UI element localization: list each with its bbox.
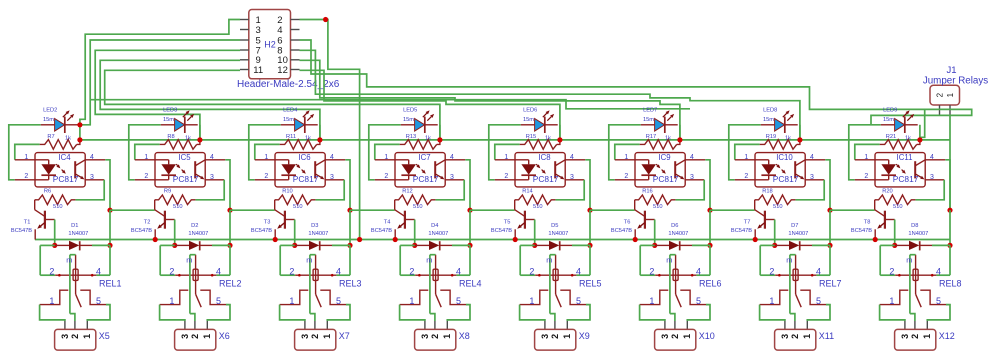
svg-text:1: 1 — [682, 334, 692, 339]
relay contact REL2 switch — [160, 290, 230, 321]
svg-text:R16: R16 — [642, 188, 652, 194]
op-amp IC10 PC817 optocoupler — [735, 153, 826, 187]
svg-text:PC817: PC817 — [173, 174, 199, 184]
resistor R21 1k — [855, 144, 880, 159]
svg-text:3: 3 — [690, 174, 694, 181]
svg-text:1: 1 — [264, 154, 268, 161]
svg-text:2: 2 — [529, 266, 534, 276]
svg-text:510: 510 — [173, 204, 183, 210]
svg-text:IC4: IC4 — [58, 153, 71, 162]
diode D3 1N4007 — [295, 244, 309, 246]
resistor R12 510 — [395, 195, 436, 205]
LED LED6 — [521, 124, 535, 126]
svg-text:5: 5 — [216, 296, 221, 306]
diode D5 1N4007 — [535, 244, 549, 246]
svg-text:4: 4 — [90, 154, 94, 161]
svg-text:2: 2 — [649, 266, 654, 276]
wire IC10 pin 3 to resistor R18 — [795, 180, 824, 200]
svg-text:T5: T5 — [504, 219, 511, 225]
svg-text:IC7: IC7 — [418, 153, 430, 162]
svg-text:REL7: REL7 — [819, 279, 842, 289]
svg-text:4: 4 — [930, 154, 934, 161]
LED LED5 — [401, 124, 415, 126]
svg-text:1k: 1k — [665, 136, 671, 142]
wire H2 pin 1 to LED2 node — [80, 20, 240, 125]
diode D6 1N4007 — [655, 244, 669, 246]
svg-text:m: m — [546, 255, 552, 264]
svg-text:m: m — [306, 255, 312, 264]
wire H2 pin 2 to ground bus — [300, 20, 360, 240]
wire IC8 pin 3 to resistor R14 — [555, 180, 584, 200]
svg-text:PC817: PC817 — [893, 174, 919, 184]
svg-text:3: 3 — [420, 334, 430, 339]
svg-text:2: 2 — [889, 266, 894, 276]
svg-text:1k: 1k — [65, 136, 71, 142]
svg-text:1N4007: 1N4007 — [788, 231, 808, 237]
junction dot T8 emitter at ground bus — [873, 237, 878, 242]
svg-text:T1: T1 — [24, 219, 31, 225]
relay coil REL2 — [160, 245, 241, 313]
relay coil REL4 — [400, 245, 481, 313]
svg-text:REL3: REL3 — [339, 279, 362, 289]
svg-text:REL5: REL5 — [579, 279, 602, 289]
wire T4 collector to diode node — [414, 220, 416, 246]
svg-text:3: 3 — [256, 25, 261, 36]
svg-text:BC547B: BC547B — [11, 228, 32, 234]
svg-text:4: 4 — [576, 266, 581, 276]
op-amp IC8 PC817 optocoupler — [495, 153, 586, 187]
svg-text:4: 4 — [96, 266, 101, 276]
svg-text:R8: R8 — [167, 134, 174, 140]
svg-text:1: 1 — [384, 154, 388, 161]
resistor R11 1k — [255, 144, 280, 159]
svg-text:3: 3 — [210, 174, 214, 181]
svg-text:510: 510 — [533, 204, 543, 210]
transistor T3 BC547B — [251, 200, 295, 240]
svg-text:1k: 1k — [785, 136, 791, 142]
svg-text:IC8: IC8 — [538, 153, 550, 162]
svg-text:2: 2 — [744, 173, 748, 180]
wire LED7 anode to IC9 pin 2 — [609, 125, 641, 180]
op-amp IC6 PC817 optocoupler — [255, 153, 345, 187]
wire node IC9 supply to next base hook — [710, 209, 755, 211]
svg-text:1: 1 — [649, 296, 654, 306]
junction dot T6 emitter at ground bus — [633, 237, 638, 242]
svg-text:LED6: LED6 — [523, 108, 537, 114]
svg-text:1k: 1k — [425, 136, 431, 142]
wire LED3 anode to IC5 pin 2 — [129, 125, 161, 180]
wire IC4 pin 4 to relay supply column — [105, 160, 110, 210]
wire H2 pin 6 to LED9 node — [300, 40, 925, 140]
wire H2 pin 12 to LED6 node — [300, 70, 560, 140]
svg-text:1: 1 — [864, 154, 868, 161]
wire node IC10 supply to next base hook — [830, 209, 875, 211]
svg-text:2: 2 — [624, 173, 628, 180]
resistor R10 510 — [275, 195, 316, 205]
svg-text:X10: X10 — [699, 331, 715, 341]
transistor T8 BC547B — [851, 200, 895, 240]
svg-text:2: 2 — [910, 334, 920, 339]
relay contact REL1 switch — [40, 290, 110, 321]
relay contact REL3 switch — [280, 290, 350, 321]
svg-text:3: 3 — [570, 174, 574, 181]
relay coil REL3 — [280, 245, 361, 313]
svg-text:PC817: PC817 — [53, 174, 79, 184]
svg-text:R13: R13 — [406, 134, 416, 140]
svg-text:R9: R9 — [164, 188, 171, 194]
svg-text:2: 2 — [310, 334, 320, 339]
svg-text:5: 5 — [96, 296, 101, 306]
wire emitter/ground bus at y=239.5 — [35, 239, 950, 241]
svg-text:J1: J1 — [946, 65, 956, 76]
svg-text:15m: 15m — [643, 117, 654, 123]
svg-text:X5: X5 — [99, 331, 110, 341]
wire H2 pin 10 to LED7 node — [300, 60, 680, 140]
svg-text:m: m — [786, 255, 792, 264]
svg-text:4: 4 — [210, 154, 214, 161]
svg-text:2: 2 — [769, 266, 774, 276]
junction dot T4 emitter at ground bus — [393, 237, 398, 242]
svg-text:R19: R19 — [766, 134, 776, 140]
svg-text:BC547B: BC547B — [851, 228, 872, 234]
wire node IC4 supply to next base hook — [110, 209, 155, 211]
wire node IC6 supply to next base hook — [350, 209, 395, 211]
connector X5 — [55, 321, 110, 350]
node LED8 junction column — [799, 125, 801, 140]
svg-text:5: 5 — [936, 296, 941, 306]
LED LED9 — [881, 124, 895, 126]
wire IC6 pin 3 to resistor R10 — [315, 180, 344, 200]
node LED5 junction column — [439, 125, 441, 140]
node LED7 junction column — [679, 125, 681, 140]
svg-text:2: 2 — [144, 173, 148, 180]
svg-text:1: 1 — [289, 296, 294, 306]
wire T6 collector to diode node — [654, 220, 656, 246]
diode D1 1N4007 — [55, 244, 69, 246]
svg-text:4: 4 — [336, 266, 341, 276]
svg-text:3: 3 — [90, 174, 94, 181]
svg-text:4: 4 — [570, 154, 574, 161]
svg-text:4: 4 — [330, 154, 334, 161]
svg-text:5: 5 — [816, 296, 821, 306]
LED LED3 — [161, 124, 175, 126]
svg-text:R6: R6 — [44, 188, 51, 194]
svg-text:1k: 1k — [905, 136, 911, 142]
svg-text:1: 1 — [82, 334, 92, 339]
node LED4 junction column — [319, 125, 321, 140]
resistor R17 1k — [615, 144, 640, 159]
svg-text:2: 2 — [935, 92, 944, 97]
svg-text:X9: X9 — [579, 331, 590, 341]
svg-text:m: m — [66, 255, 72, 264]
svg-text:R21: R21 — [886, 134, 896, 140]
wire LED4 anode to IC6 pin 2 — [249, 125, 281, 180]
wire relay feed under J1 — [925, 109, 972, 115]
LED LED4 — [281, 124, 295, 126]
svg-text:R12: R12 — [402, 188, 412, 194]
junction dot T3 emitter at ground bus — [273, 237, 278, 242]
relay coil REL1 — [40, 245, 121, 313]
svg-text:D4: D4 — [431, 223, 438, 229]
relay contact REL8 switch — [880, 290, 950, 321]
svg-text:2: 2 — [289, 266, 294, 276]
svg-text:1k: 1k — [185, 136, 191, 142]
svg-text:4: 4 — [696, 266, 701, 276]
svg-text:3: 3 — [810, 174, 814, 181]
svg-text:PC817: PC817 — [293, 174, 319, 184]
svg-text:REL4: REL4 — [459, 279, 482, 289]
op-amp IC9 PC817 optocoupler — [615, 153, 706, 187]
resistor R6 510 — [35, 195, 76, 205]
transistor T2 BC547B — [131, 200, 175, 240]
transistor T6 BC547B — [611, 200, 655, 240]
svg-text:1: 1 — [169, 296, 174, 306]
svg-text:X6: X6 — [219, 331, 230, 341]
svg-text:510: 510 — [893, 204, 903, 210]
svg-text:2: 2 — [670, 334, 680, 339]
svg-text:3: 3 — [780, 334, 790, 339]
svg-text:3: 3 — [450, 174, 454, 181]
svg-text:2: 2 — [24, 173, 28, 180]
connector X12 — [895, 321, 955, 350]
connector H2 header box — [249, 10, 291, 79]
relay contact REL5 switch — [520, 290, 590, 321]
node LED6 junction column — [559, 125, 561, 140]
connector X10 — [655, 321, 715, 350]
resistor R8 1k — [135, 144, 160, 159]
wire node IC5 supply to next base hook — [230, 209, 275, 211]
svg-text:1: 1 — [624, 154, 628, 161]
junction dot T7 emitter at ground bus — [753, 237, 758, 242]
wire IC5 pin 3 to resistor R9 — [195, 180, 224, 200]
svg-text:2: 2 — [70, 334, 80, 339]
svg-text:15m: 15m — [403, 117, 414, 123]
svg-text:LED9: LED9 — [883, 108, 897, 114]
wire bus net at y=139.9 linking LED/resistor junctions — [80, 139, 950, 141]
wire J1 pin 2 to LED9 anode — [871, 115, 940, 124]
svg-text:15m: 15m — [883, 117, 894, 123]
svg-text:R7: R7 — [47, 134, 54, 140]
svg-text:D1: D1 — [71, 223, 78, 229]
wire T7 collector to diode node — [774, 220, 776, 246]
svg-text:X7: X7 — [339, 331, 350, 341]
resistor R7 1k — [15, 144, 40, 159]
wire IC7 pin 4 to relay supply column — [465, 160, 470, 210]
svg-text:1N4007: 1N4007 — [428, 231, 448, 237]
relay coil REL7 — [760, 245, 841, 313]
transistor T5 BC547B — [491, 200, 535, 240]
svg-text:R11: R11 — [286, 134, 296, 140]
svg-text:4: 4 — [216, 266, 221, 276]
svg-text:BC547B: BC547B — [491, 228, 512, 234]
diode D4 1N4007 — [415, 244, 429, 246]
svg-text:LED4: LED4 — [283, 108, 297, 114]
svg-text:15m: 15m — [523, 117, 534, 123]
svg-text:2: 2 — [264, 173, 268, 180]
svg-text:3: 3 — [60, 334, 70, 339]
svg-text:IC10: IC10 — [776, 153, 793, 162]
J1 pin stubs — [939, 105, 941, 115]
op-amp IC7 PC817 optocoupler — [375, 153, 466, 187]
svg-text:R17: R17 — [646, 134, 656, 140]
svg-text:D7: D7 — [791, 223, 798, 229]
diode D7 1N4007 — [775, 244, 789, 246]
svg-text:2: 2 — [190, 334, 200, 339]
svg-text:2: 2 — [430, 334, 440, 339]
svg-text:1N4007: 1N4007 — [908, 231, 928, 237]
H2 pin stubs — [240, 19, 249, 21]
svg-text:1: 1 — [322, 334, 332, 339]
svg-text:LED3: LED3 — [163, 108, 177, 114]
svg-text:m: m — [906, 255, 912, 264]
junction dot T2 emitter at ground bus — [153, 237, 158, 242]
svg-text:BC547B: BC547B — [371, 228, 392, 234]
svg-text:LED5: LED5 — [403, 108, 417, 114]
connector X11 — [775, 321, 835, 350]
svg-text:510: 510 — [413, 204, 423, 210]
wire node IC8 supply to next base hook — [590, 209, 635, 211]
svg-text:LED8: LED8 — [763, 108, 777, 114]
svg-text:BC547B: BC547B — [131, 228, 152, 234]
svg-text:1: 1 — [202, 334, 212, 339]
svg-text:1N4007: 1N4007 — [68, 231, 88, 237]
svg-text:BC547B: BC547B — [731, 228, 752, 234]
svg-text:R10: R10 — [282, 188, 292, 194]
svg-text:PC817: PC817 — [533, 174, 559, 184]
svg-text:2: 2 — [550, 334, 560, 339]
diode D2 1N4007 — [175, 244, 189, 246]
svg-text:R14: R14 — [522, 188, 532, 194]
resistor R20 510 — [875, 195, 916, 205]
svg-text:T4: T4 — [384, 219, 391, 225]
svg-text:1: 1 — [409, 296, 414, 306]
svg-text:510: 510 — [773, 204, 783, 210]
svg-text:D3: D3 — [311, 223, 318, 229]
transistor T1 BC547B — [11, 200, 55, 240]
wire LED2 anode to IC4 pin 2 — [9, 125, 41, 180]
wire T2 collector to diode node — [174, 220, 176, 246]
wire LED5 anode to IC7 pin 2 — [369, 125, 401, 180]
diode D8 1N4007 — [895, 244, 909, 246]
svg-text:1k: 1k — [545, 136, 551, 142]
svg-text:15m: 15m — [163, 117, 174, 123]
resistor R9 510 — [155, 195, 196, 205]
connector X9 — [535, 321, 590, 350]
resistor R15 1k — [495, 144, 520, 159]
svg-text:11: 11 — [253, 65, 263, 76]
svg-text:15m: 15m — [763, 117, 774, 123]
wire T1 collector to diode node — [54, 220, 56, 246]
svg-text:510: 510 — [653, 204, 663, 210]
svg-text:4: 4 — [277, 25, 282, 36]
svg-text:5: 5 — [456, 296, 461, 306]
svg-text:2: 2 — [790, 334, 800, 339]
svg-text:2: 2 — [864, 173, 868, 180]
connector X7 — [295, 321, 350, 350]
svg-text:m: m — [666, 255, 672, 264]
wire T5 collector to diode node — [534, 220, 536, 246]
svg-text:1N4007: 1N4007 — [188, 231, 208, 237]
connector J1 jumper box — [930, 85, 960, 105]
svg-text:IC6: IC6 — [298, 153, 310, 162]
wire IC11 pin 3 to resistor R20 — [915, 180, 944, 200]
svg-text:12: 12 — [277, 65, 288, 76]
junction dot pin2 wire at ground bus — [357, 237, 362, 242]
node LED3 junction column — [199, 125, 201, 140]
wire J1 pin 1 to relay supply column — [949, 115, 951, 210]
svg-text:1N4007: 1N4007 — [548, 231, 568, 237]
svg-text:REL8: REL8 — [939, 279, 962, 289]
svg-text:510: 510 — [53, 204, 63, 210]
op-amp IC5 PC817 optocoupler — [135, 153, 226, 187]
svg-text:BC547B: BC547B — [611, 228, 632, 234]
transistor T7 BC547B — [731, 200, 775, 240]
svg-text:5: 5 — [336, 296, 341, 306]
svg-text:R15: R15 — [526, 134, 536, 140]
svg-text:R18: R18 — [762, 188, 772, 194]
svg-text:2: 2 — [409, 266, 414, 276]
svg-text:1: 1 — [802, 334, 812, 339]
svg-text:REL6: REL6 — [699, 279, 722, 289]
svg-text:T2: T2 — [144, 219, 151, 225]
wire IC4 pin 3 to resistor R6 — [75, 180, 104, 200]
svg-text:1N4007: 1N4007 — [668, 231, 688, 237]
svg-text:1: 1 — [144, 154, 148, 161]
svg-text:m: m — [426, 255, 432, 264]
svg-text:1: 1 — [529, 296, 534, 306]
svg-text:1: 1 — [562, 334, 572, 339]
svg-text:4: 4 — [936, 266, 941, 276]
svg-text:3: 3 — [540, 334, 550, 339]
svg-text:D8: D8 — [911, 223, 918, 229]
wire T8 collector to diode node — [894, 220, 896, 246]
svg-text:15m: 15m — [43, 117, 54, 123]
svg-text:REL1: REL1 — [99, 279, 122, 289]
svg-text:4: 4 — [810, 154, 814, 161]
svg-text:4: 4 — [690, 154, 694, 161]
svg-text:X8: X8 — [459, 331, 470, 341]
wire H2 pin 7 to LED3 node — [95, 50, 240, 140]
node LED2 junction column — [79, 125, 81, 140]
wire LED8 anode to IC10 pin 2 — [729, 125, 761, 180]
svg-text:T3: T3 — [264, 219, 271, 225]
relay coil REL5 — [520, 245, 601, 313]
svg-text:X12: X12 — [939, 331, 955, 341]
svg-text:3: 3 — [180, 334, 190, 339]
svg-text:BC547B: BC547B — [251, 228, 272, 234]
wire IC11 pin 4 to relay supply column — [945, 160, 950, 210]
svg-text:D2: D2 — [191, 223, 198, 229]
svg-text:LED7: LED7 — [643, 108, 657, 114]
svg-text:1: 1 — [889, 296, 894, 306]
svg-text:1: 1 — [744, 154, 748, 161]
resistor R18 510 — [755, 195, 796, 205]
junction dot H2 pin 2 — [323, 17, 328, 22]
svg-text:4: 4 — [450, 154, 454, 161]
svg-text:1: 1 — [504, 154, 508, 161]
wire IC6 pin 4 to relay supply column — [345, 160, 350, 210]
wire IC9 pin 3 to resistor R16 — [675, 180, 704, 200]
op-amp IC11 PC817 optocoupler — [855, 153, 946, 187]
svg-text:1: 1 — [49, 296, 54, 306]
svg-text:Jumper Relays: Jumper Relays — [923, 75, 988, 86]
svg-text:D6: D6 — [671, 223, 678, 229]
svg-text:3: 3 — [660, 334, 670, 339]
svg-text:510: 510 — [293, 204, 303, 210]
svg-text:2: 2 — [49, 266, 54, 276]
svg-text:3: 3 — [330, 174, 334, 181]
svg-text:3: 3 — [900, 334, 910, 339]
